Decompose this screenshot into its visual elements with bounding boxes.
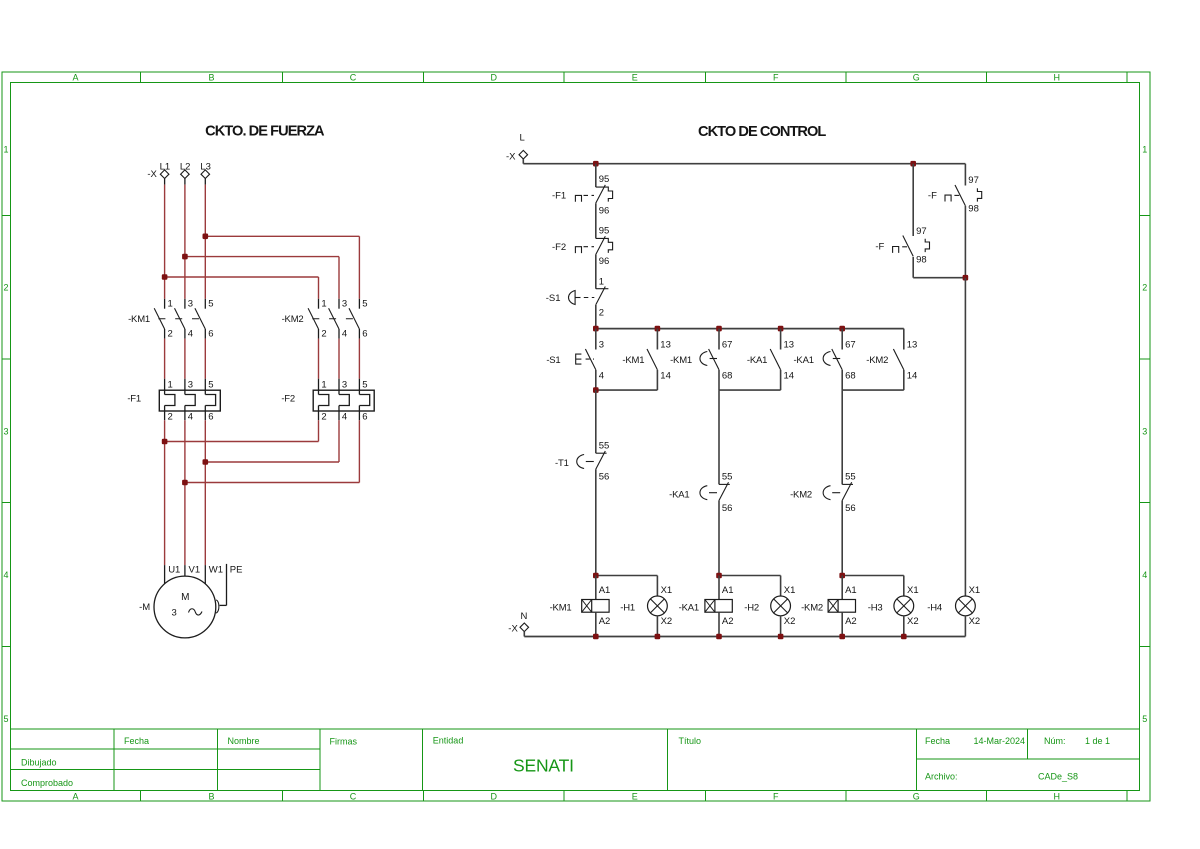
NO contact KM1 13-14 (622, 329, 670, 391)
wire F1-2 to motor U1 (164, 420, 166, 565)
svg-text:5: 5 (208, 298, 213, 309)
timed NC contact T1 55-56 (555, 390, 609, 575)
svg-text:56: 56 (845, 503, 856, 514)
svg-text:2: 2 (1142, 283, 1147, 293)
NO contact F 97-98 (upper right) (928, 175, 982, 278)
svg-text:G: G (913, 792, 920, 802)
svg-text:6: 6 (362, 412, 367, 423)
junction rail 2 (778, 326, 784, 332)
svg-text:Comprobado: Comprobado (21, 778, 73, 788)
junction L1 tap (162, 274, 168, 280)
svg-text:-H2: -H2 (744, 602, 759, 613)
contactor KM1 main contacts 1-6 (128, 298, 213, 339)
svg-text:Fecha: Fecha (124, 736, 149, 746)
svg-text:A: A (72, 73, 78, 83)
svg-text:Núm:: Núm: (1044, 736, 1066, 746)
svg-text:56: 56 (599, 472, 610, 483)
lamp H4 X1-X2 (927, 585, 980, 637)
svg-text:SENATI: SENATI (513, 756, 574, 776)
svg-text:4: 4 (599, 370, 604, 381)
svg-text:-KA1: -KA1 (679, 602, 699, 613)
svg-text:Dibujado: Dibujado (21, 758, 57, 768)
svg-text:5: 5 (362, 298, 367, 309)
svg-text:2: 2 (3, 283, 8, 293)
svg-text:A2: A2 (599, 616, 611, 627)
svg-text:Título: Título (679, 736, 702, 746)
svg-text:4: 4 (3, 570, 8, 580)
svg-text:X1: X1 (784, 585, 796, 596)
svg-text:2: 2 (168, 412, 173, 423)
svg-text:-H4: -H4 (927, 602, 942, 613)
wire S1 to rail 2 (595, 305, 597, 329)
junction rail 2 (839, 326, 845, 332)
svg-text:L3: L3 (200, 162, 211, 173)
svg-text:-KM1: -KM1 (550, 602, 572, 613)
svg-text:3: 3 (599, 339, 604, 350)
svg-text:14: 14 (907, 370, 918, 381)
wire right branch down (964, 164, 966, 186)
wire KM1 pole to F1 (164, 339, 166, 379)
svg-text:-KA1: -KA1 (747, 355, 767, 366)
svg-text:6: 6 (362, 329, 367, 340)
junction rail 2 (716, 326, 722, 332)
svg-text:A: A (72, 792, 78, 802)
svg-text:-X: -X (508, 623, 518, 634)
wire L2 vertical (184, 185, 186, 299)
junction L2 tap (182, 254, 188, 260)
svg-text:-KM2: -KM2 (790, 489, 812, 500)
svg-text:95: 95 (599, 174, 610, 185)
svg-text:CADe_S8: CADe_S8 (1038, 772, 1078, 782)
svg-text:-F: -F (928, 190, 937, 201)
terminal -X L1 (160, 162, 171, 185)
svg-text:D: D (491, 73, 498, 83)
svg-text:55: 55 (845, 472, 856, 483)
junction coil KM2 tap (839, 573, 845, 579)
svg-text:D: D (491, 792, 498, 802)
wire join KM1t/KA1 (719, 389, 781, 391)
svg-text:Firmas: Firmas (330, 737, 358, 747)
svg-text:97: 97 (916, 226, 927, 237)
svg-text:-KM2: -KM2 (866, 355, 888, 366)
svg-text:L: L (520, 133, 525, 144)
svg-text:-M: -M (139, 602, 150, 613)
svg-text:Fecha: Fecha (925, 736, 950, 746)
start pushbutton S1 3-4 (NO) (546, 329, 604, 391)
junction U1/F2-2 (162, 439, 168, 445)
junction bottom rail (593, 634, 599, 640)
svg-text:X2: X2 (907, 616, 919, 627)
svg-text:-F2: -F2 (281, 394, 295, 405)
wire tap L2 to KM2 pole 3 (185, 256, 339, 258)
svg-text:1: 1 (321, 298, 326, 309)
junction rail 2 (593, 326, 599, 332)
wire top rail L (523, 163, 965, 165)
svg-text:98: 98 (916, 254, 927, 265)
svg-text:B: B (208, 73, 214, 83)
junction rail 2 (655, 326, 661, 332)
svg-text:5: 5 (3, 714, 8, 724)
svg-text:X1: X1 (661, 585, 673, 596)
svg-text:3: 3 (188, 298, 193, 309)
svg-text:A1: A1 (722, 585, 734, 596)
junction rail / F1 branch (593, 161, 599, 167)
svg-text:-KA1: -KA1 (793, 355, 813, 366)
NO contact F 97-98 (second, parallel) (875, 164, 965, 278)
junction coil KA1 tap (716, 573, 722, 579)
svg-text:3: 3 (172, 608, 177, 619)
svg-text:5: 5 (1142, 714, 1147, 724)
svg-text:55: 55 (599, 440, 610, 451)
svg-text:A1: A1 (845, 585, 857, 596)
thermal overload F1 (127, 379, 220, 423)
svg-text:1: 1 (1142, 144, 1147, 154)
wire F1 to F2 (595, 203, 597, 238)
svg-text:5: 5 (362, 380, 367, 391)
svg-text:98: 98 (968, 204, 979, 215)
junction branch KM1 (593, 387, 599, 393)
lamp H3 X1-X2 (868, 585, 919, 637)
svg-text:1: 1 (599, 277, 604, 288)
svg-text:G: G (913, 73, 920, 83)
svg-text:2: 2 (168, 329, 173, 340)
svg-text:14-Mar-2024: 14-Mar-2024 (974, 736, 1026, 746)
svg-text:1: 1 (168, 380, 173, 391)
svg-text:3: 3 (188, 380, 193, 391)
coil KM2 A1-A2 (801, 576, 857, 637)
svg-text:1: 1 (321, 380, 326, 391)
svg-text:-X: -X (147, 169, 157, 180)
wire tap L1 to KM2 pole 1 (165, 276, 319, 278)
svg-text:CKTO DE CONTROL: CKTO DE CONTROL (698, 124, 826, 140)
wire KM2 branch to H3 tap (842, 575, 904, 577)
coil KM1 A1-A2 (550, 576, 611, 637)
svg-text:-KM2: -KM2 (282, 314, 304, 325)
svg-text:-X: -X (506, 151, 516, 162)
svg-text:-KM1: -KM1 (128, 314, 150, 325)
wire join KA1t/KM2 (842, 389, 904, 391)
wire KM1 pole to F1 (184, 339, 186, 379)
wire L1 vertical (164, 185, 166, 299)
wire KM2 pole to F2 (318, 339, 320, 379)
svg-text:5: 5 (208, 380, 213, 391)
junction bottom rail (901, 634, 907, 640)
svg-text:C: C (350, 792, 357, 802)
svg-text:Archivo:: Archivo: (925, 772, 958, 782)
svg-text:E: E (632, 792, 638, 802)
svg-text:-S1: -S1 (546, 293, 561, 304)
wire KA1 branch to H2 tap (719, 575, 781, 577)
svg-text:-H3: -H3 (868, 602, 883, 613)
svg-text:96: 96 (599, 256, 610, 267)
svg-text:3: 3 (342, 298, 347, 309)
svg-text:-KM1: -KM1 (670, 355, 692, 366)
svg-text:4: 4 (342, 329, 347, 340)
svg-text:-F2: -F2 (552, 242, 566, 253)
svg-text:A2: A2 (722, 616, 734, 627)
wire L3 vertical (204, 185, 206, 299)
svg-text:-F: -F (875, 242, 884, 253)
svg-text:13: 13 (784, 339, 795, 350)
svg-text:X2: X2 (784, 616, 796, 627)
svg-text:56: 56 (722, 503, 733, 514)
svg-text:CKTO. DE FUERZA: CKTO. DE FUERZA (205, 124, 325, 140)
svg-text:13: 13 (907, 339, 918, 350)
timed NO contact KA1 67-68 (793, 329, 855, 391)
wire F2-2 to U1 (318, 420, 320, 441)
svg-text:95: 95 (599, 226, 610, 237)
svg-text:H: H (1054, 73, 1061, 83)
svg-text:14: 14 (660, 370, 671, 381)
svg-text:3: 3 (1142, 426, 1147, 436)
svg-text:V1: V1 (189, 565, 201, 576)
svg-text:-KM1: -KM1 (622, 355, 644, 366)
terminal -X L (line) (506, 133, 528, 164)
stop pushbutton S1 1-2 (NC, mushroom head) (546, 277, 609, 319)
svg-text:2: 2 (599, 307, 604, 318)
wire F1-6 to motor W1 (204, 420, 206, 565)
thermal overload F2 (281, 379, 374, 423)
svg-text:2: 2 (321, 412, 326, 423)
svg-text:6: 6 (208, 329, 213, 340)
svg-text:-F1: -F1 (552, 191, 566, 202)
lamp H2 X1-X2 (744, 585, 795, 637)
svg-text:4: 4 (188, 329, 193, 340)
svg-text:13: 13 (660, 339, 671, 350)
wire tap L3 to KM2 pole 5 (205, 235, 359, 237)
junction bottom rail (839, 634, 845, 640)
svg-text:14: 14 (784, 370, 795, 381)
svg-text:4: 4 (1142, 570, 1147, 580)
wire KM2 pole to F2 (358, 339, 360, 379)
svg-text:-H1: -H1 (620, 602, 635, 613)
wire KM1 pole to F1 (204, 339, 206, 379)
svg-text:F: F (773, 792, 779, 802)
svg-text:M: M (181, 592, 189, 603)
svg-text:68: 68 (722, 370, 733, 381)
svg-text:A1: A1 (599, 585, 611, 596)
terminal -X N (neutral) (508, 611, 528, 637)
svg-text:E: E (632, 73, 638, 83)
timed NC contact KM2 55-56 (790, 390, 856, 575)
svg-text:X1: X1 (907, 585, 919, 596)
svg-text:PE: PE (230, 565, 243, 576)
coil KA1 A1-A2 (679, 576, 734, 637)
junction coil KM1 tap (593, 573, 599, 579)
svg-text:97: 97 (968, 175, 979, 186)
wire join S1/KM1 (596, 389, 658, 391)
svg-text:F: F (773, 73, 779, 83)
svg-text:1: 1 (168, 298, 173, 309)
svg-text:Nombre: Nombre (228, 736, 260, 746)
junction F branches (963, 275, 969, 281)
svg-text:55: 55 (722, 472, 733, 483)
wire bottom rail N (524, 636, 965, 638)
terminal -X L2 (180, 162, 191, 185)
svg-text:N: N (521, 611, 528, 622)
NC contact F2 95-96 (552, 226, 613, 268)
lamp H1 X1-X2 (620, 585, 672, 637)
svg-text:2: 2 (321, 329, 326, 340)
wire KM2 pole to F2 (338, 339, 340, 379)
junction bottom rail (716, 634, 722, 640)
junction L3 tap (203, 234, 209, 240)
svg-text:-S1: -S1 (546, 355, 560, 366)
svg-text:3: 3 (3, 426, 8, 436)
svg-text:B: B (208, 792, 214, 802)
PE conductor (216, 564, 242, 613)
svg-text:67: 67 (722, 339, 733, 350)
junction rail / F branch 2 (910, 161, 916, 167)
contactor KM2 main contacts 1-6 (282, 298, 368, 339)
svg-text:96: 96 (599, 205, 610, 216)
svg-text:68: 68 (845, 370, 856, 381)
NO contact KM2 13-14 (866, 339, 917, 390)
wire F2-6 to V1 (358, 420, 360, 482)
NC contact F1 95-96 (552, 164, 613, 217)
svg-text:X1: X1 (969, 585, 981, 596)
motor M 3~ (154, 565, 223, 638)
wire rail 2 (596, 328, 904, 330)
wire F2-4 to W1 (338, 420, 340, 462)
svg-text:-T1: -T1 (555, 458, 569, 469)
NO contact KA1 13-14 (747, 329, 794, 391)
svg-text:4: 4 (188, 412, 193, 423)
terminal -X L3 (200, 162, 211, 185)
svg-text:-KM2: -KM2 (801, 602, 823, 613)
svg-text:1 de 1: 1 de 1 (1085, 736, 1110, 746)
svg-text:H: H (1054, 792, 1061, 802)
svg-text:67: 67 (845, 339, 856, 350)
junction V1/F2-6 (182, 480, 188, 486)
svg-text:A2: A2 (845, 616, 857, 627)
timed NC contact KA1 55-56 (669, 390, 732, 575)
svg-text:W1: W1 (209, 565, 223, 576)
timed NO contact KM1 67-68 (670, 329, 732, 391)
svg-text:Entidad: Entidad (433, 736, 464, 746)
svg-text:L2: L2 (180, 162, 191, 173)
junction bottom rail (655, 634, 661, 640)
svg-text:C: C (350, 73, 357, 83)
svg-text:U1: U1 (168, 565, 180, 576)
svg-text:-KA1: -KA1 (669, 489, 689, 500)
svg-text:X2: X2 (969, 616, 981, 627)
wire F to lamp H4 (964, 278, 966, 596)
junction bottom rail (778, 634, 784, 640)
svg-text:X2: X2 (661, 616, 673, 627)
svg-text:-F1: -F1 (127, 394, 141, 405)
wire F2 to S1 (595, 255, 597, 289)
svg-text:1: 1 (3, 144, 8, 154)
svg-text:6: 6 (208, 412, 213, 423)
junction W1/F2-4 (203, 459, 209, 465)
svg-text:L1: L1 (160, 162, 171, 173)
wire F1-4 to motor V1 (184, 420, 186, 565)
wire KM1 branch to H1 tap (596, 575, 658, 577)
svg-text:3: 3 (342, 380, 347, 391)
svg-text:4: 4 (342, 412, 347, 423)
